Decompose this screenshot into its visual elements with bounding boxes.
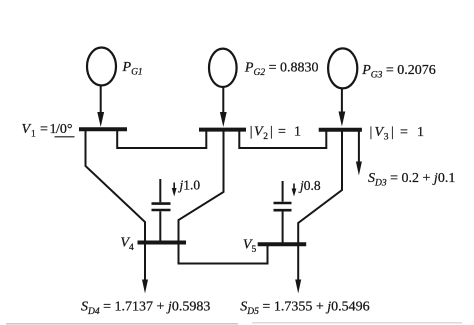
injection arrow j1.0 — [172, 183, 177, 197]
bus 1 — [79, 127, 127, 131]
generator G3 lead wire with arrow — [339, 89, 346, 127]
wire bus2 to bus4 — [179, 130, 224, 243]
svg-text:1: 1 — [31, 130, 36, 140]
svg-text:V: V — [22, 122, 32, 137]
svg-text:=: = — [400, 125, 408, 140]
load arrow SD3 — [356, 130, 362, 176]
svg-text:|: | — [370, 125, 373, 140]
bus 2 — [199, 128, 246, 132]
wire bus4 to bus5 — [179, 243, 268, 264]
svg-text:1: 1 — [417, 125, 424, 140]
svg-text:SD5 = 1.7355 + j0.5496: SD5 = 1.7355 + j0.5496 — [240, 300, 369, 318]
bus 4 — [138, 241, 187, 245]
wire bus1 to bus4 — [86, 129, 146, 242]
wire bus1 to bus2 — [117, 129, 206, 148]
generator G2 lead wire with arrow — [220, 87, 227, 127]
generator G1 lead wire with arrow — [97, 86, 104, 128]
injection arrow j0.8 — [292, 184, 297, 197]
generator G1 — [87, 48, 116, 86]
load arrow SD5 — [295, 244, 301, 293]
svg-text:|: | — [391, 125, 394, 140]
svg-text:j0.8: j0.8 — [298, 178, 321, 193]
svg-text:|: | — [270, 125, 273, 140]
capacitor C5 (j0.8) — [274, 181, 292, 244]
svg-text:/0°: /0° — [56, 122, 73, 137]
generator G3 — [328, 48, 357, 88]
svg-text:SD4 = 1.7137 + j0.5983: SD4 = 1.7137 + j0.5983 — [81, 300, 210, 318]
bus 3 — [319, 128, 362, 132]
svg-text:3: 3 — [384, 133, 389, 143]
scan artifact line at bottom — [6, 323, 462, 324]
generator G2 — [209, 49, 237, 87]
load arrow SD4 — [142, 243, 148, 294]
svg-text:j1.0: j1.0 — [178, 177, 201, 192]
svg-text:1: 1 — [294, 125, 301, 140]
label |V2| = 1 — [250, 125, 301, 143]
svg-text:|: | — [250, 125, 253, 140]
capacitor C4 (j1.0) — [152, 179, 171, 243]
svg-text:2: 2 — [263, 132, 268, 142]
wire bus3 to bus5 — [298, 130, 342, 245]
label V1 = 1/0deg — [22, 122, 75, 140]
bus 5 — [258, 242, 307, 246]
svg-text:=: = — [40, 122, 48, 137]
svg-text:=: = — [278, 125, 286, 140]
label |V3| = 1 — [370, 125, 425, 143]
wire bus2 to bus3 — [239, 130, 326, 148]
